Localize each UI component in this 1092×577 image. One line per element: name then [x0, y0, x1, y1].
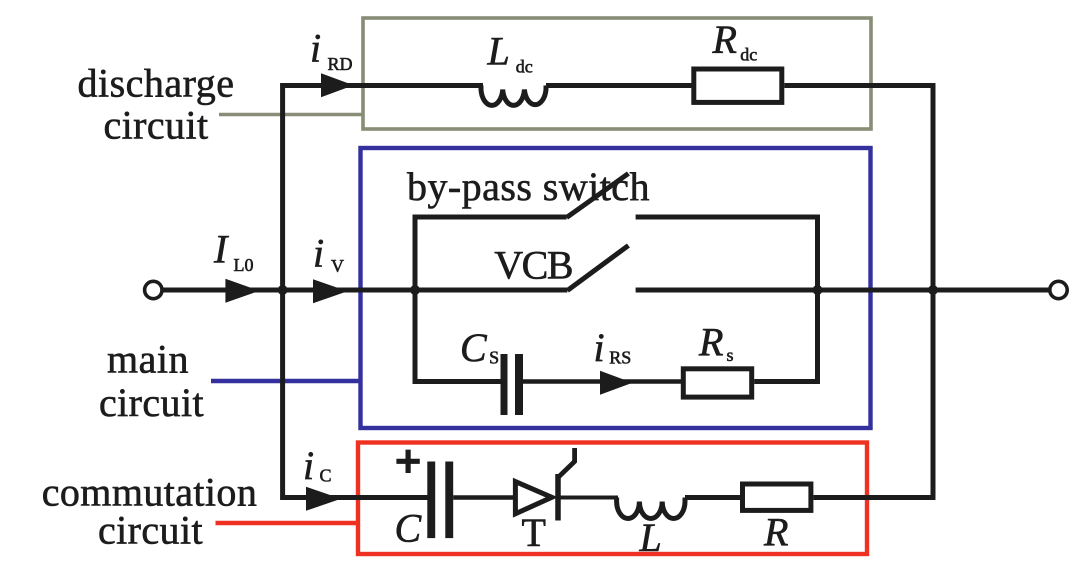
label C_S: [460, 325, 499, 370]
node junction left tap: [278, 285, 288, 295]
svg-text:RD: RD: [328, 54, 353, 74]
label i_V: [313, 231, 344, 277]
svg-text:dc: dc: [740, 45, 757, 65]
capacitor C polarity plus: [396, 450, 419, 473]
wire snubber branch middle: [523, 379, 685, 383]
arrow i_RS: [600, 371, 633, 395]
svg-text:L: L: [487, 29, 510, 74]
node junction right return: [928, 285, 938, 295]
resistor R_dc: [694, 69, 782, 102]
svg-text:C: C: [320, 466, 332, 486]
svg-text:i: i: [310, 26, 321, 71]
label i_RS: [594, 325, 632, 370]
label i_RD: [310, 26, 353, 75]
svg-text:R: R: [763, 509, 788, 554]
svg-text:C: C: [460, 325, 488, 370]
label L_dc: [487, 29, 533, 77]
arrow i_RD: [321, 73, 354, 97]
switch blade by-pass: [567, 174, 629, 218]
terminal right: [1050, 281, 1067, 298]
svg-text:L0: L0: [234, 255, 254, 275]
wire right return vertical: [931, 83, 936, 500]
svg-text:i: i: [594, 325, 605, 370]
capacitor C: [427, 462, 453, 539]
inductor L_dc: [481, 86, 546, 106]
svg-text:circuit: circuit: [99, 380, 204, 425]
wire capacitor to thyristor: [453, 495, 517, 499]
svg-text:dc: dc: [516, 57, 533, 77]
wire discharge branch middle: [546, 83, 692, 88]
label R_dc: [712, 17, 758, 65]
svg-text:main: main: [107, 337, 189, 382]
svg-text:RS: RS: [609, 348, 631, 368]
svg-text:by-pass switch: by-pass switch: [407, 164, 650, 209]
terminal left: [145, 281, 162, 298]
svg-text:circuit: circuit: [98, 507, 203, 552]
wire discharge branch right: [784, 83, 935, 88]
thyristor T: [515, 448, 574, 521]
svg-text:R: R: [712, 17, 737, 62]
svg-text:VCB: VCB: [494, 243, 572, 288]
label I_L0: [213, 227, 254, 275]
svg-text:T: T: [522, 510, 546, 555]
node junction inner left: [410, 285, 420, 295]
wire main line left segment: [162, 288, 567, 293]
wire by-pass branch left: [413, 215, 567, 220]
svg-text:circuit: circuit: [104, 103, 209, 148]
commutation circuit enclosure box: [358, 443, 867, 555]
svg-text:I: I: [213, 227, 229, 272]
arrow I_L0: [225, 279, 259, 303]
label "main circuit": [99, 337, 204, 426]
wire discharge branch left: [280, 83, 483, 88]
wire inner right vertical: [815, 215, 820, 384]
wire left tap vertical: [280, 83, 285, 500]
inductor L: [617, 498, 685, 519]
switch blade VCB: [567, 246, 628, 291]
label "commutation circuit": [42, 470, 257, 553]
resistor R_s: [683, 369, 751, 397]
svg-text:R: R: [698, 320, 723, 365]
wire main line right segment: [636, 288, 1050, 293]
wire commutation branch right: [813, 495, 935, 500]
svg-text:s: s: [727, 345, 734, 365]
label R_s: [698, 320, 734, 366]
wire inner left vertical: [413, 215, 418, 384]
svg-text:S: S: [489, 348, 499, 368]
svg-text:discharge: discharge: [77, 61, 234, 106]
node junction inner right: [813, 285, 823, 295]
wire snubber branch left: [413, 379, 501, 384]
capacitor C_S: [501, 354, 524, 415]
resistor R: [743, 484, 811, 510]
svg-text:V: V: [331, 256, 344, 276]
wire inductor to resistor: [685, 495, 741, 500]
label i_C: [303, 443, 332, 488]
svg-text:i: i: [303, 443, 314, 488]
main circuit enclosure box: [361, 148, 871, 428]
discharge label leader line: [219, 113, 364, 117]
svg-text:C: C: [395, 506, 423, 551]
label "discharge circuit": [77, 61, 234, 148]
arrow i_V: [313, 279, 348, 303]
main label leader line: [211, 379, 361, 383]
wire by-pass branch right: [636, 215, 820, 220]
svg-text:i: i: [313, 231, 324, 276]
wire snubber branch right: [754, 379, 820, 384]
arrow i_C: [306, 487, 341, 511]
discharge circuit enclosure box: [363, 18, 871, 129]
wire thyristor to inductor: [557, 496, 618, 500]
wire commutation branch left: [280, 495, 427, 500]
commutation label leader line: [216, 521, 360, 525]
svg-text:L: L: [639, 515, 662, 560]
